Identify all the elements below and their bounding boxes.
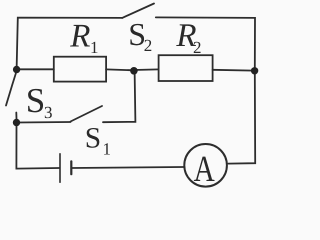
- svg-text:2: 2: [193, 38, 202, 57]
- svg-text:1: 1: [103, 139, 112, 158]
- svg-text:2: 2: [144, 36, 153, 55]
- svg-text:1: 1: [90, 38, 99, 57]
- svg-text:S: S: [85, 122, 101, 154]
- svg-text:A: A: [194, 149, 215, 189]
- svg-text:R: R: [69, 19, 90, 55]
- svg-text:S: S: [26, 81, 45, 120]
- svg-text:3: 3: [44, 103, 53, 122]
